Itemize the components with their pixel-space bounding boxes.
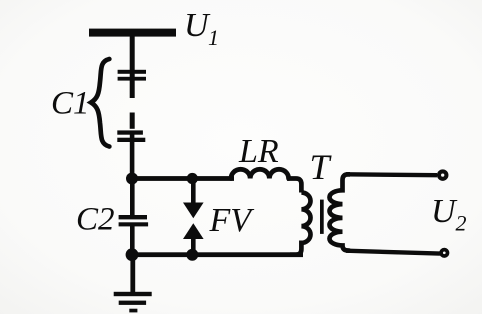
svg-text:1: 1	[208, 25, 219, 50]
svg-text:C2: C2	[76, 202, 115, 238]
terminal bottom (ring)	[441, 250, 447, 256]
capacitor C1 upper: bottom plate	[118, 77, 146, 81]
svg-text:U: U	[431, 193, 458, 230]
capacitor C1 lower: bottom plate	[117, 138, 145, 142]
svg-text:LR: LR	[238, 133, 279, 170]
wire C2 to bottom node	[130, 226, 135, 255]
FV down arrowhead	[183, 203, 204, 219]
capacitor C1 lower: top plate	[117, 130, 143, 134]
busbar (U1 bus)	[89, 29, 176, 37]
capacitor C1 upper: top plate	[118, 70, 146, 74]
wire busbar to capacitor C1	[130, 36, 135, 98]
wire inductor to transformer primary	[287, 179, 301, 193]
capacitor C2: top plate	[119, 215, 147, 219]
transformer T primary winding	[290, 193, 310, 255]
svg-text:2: 2	[456, 211, 467, 236]
FV up arrowhead	[183, 223, 204, 239]
ground bar 2	[119, 301, 146, 305]
wire node A to capacitor C2	[130, 178, 135, 217]
svg-text:U: U	[184, 7, 211, 44]
capacitor C2: bottom plate	[119, 222, 149, 226]
FV upper shaft	[191, 178, 196, 205]
top-right wire to terminal	[346, 172, 437, 177]
FV lower shaft	[191, 237, 196, 255]
terminal top (ring)	[439, 171, 446, 178]
inductor LR	[231, 169, 289, 178]
bottom-right wire to terminal	[346, 251, 440, 254]
wire node to ground	[130, 255, 135, 293]
top horizontal wire	[130, 176, 234, 181]
svg-text:T: T	[310, 147, 333, 187]
svg-text:C1: C1	[51, 86, 90, 122]
node FV-bottom (junction dot)	[186, 249, 198, 261]
brace for C1	[91, 59, 109, 147]
wire C1 lower cap to node A	[130, 133, 135, 180]
ground bar 3	[129, 309, 137, 313]
node bottom-left (junction dot)	[126, 248, 139, 261]
ground bar 1	[114, 292, 152, 296]
svg-text:FV: FV	[209, 202, 256, 239]
dashed continuation segment	[130, 113, 135, 129]
transformer core	[320, 200, 324, 234]
node A (junction dot)	[126, 173, 138, 185]
node FV-top (junction dot)	[187, 173, 198, 184]
bottom horizontal wire	[129, 252, 303, 257]
transformer T secondary winding	[330, 174, 351, 250]
